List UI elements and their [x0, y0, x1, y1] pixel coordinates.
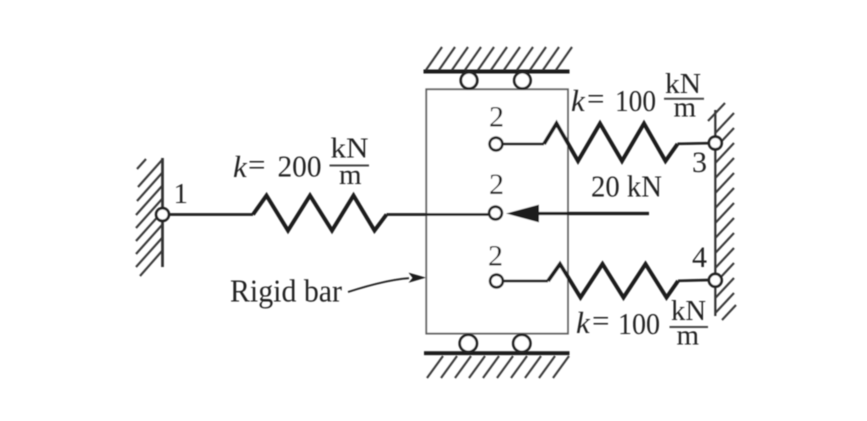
rigid bar (rectangle body)	[426, 89, 568, 333]
left wall	[161, 158, 164, 267]
wire node1 to spring k200	[166, 213, 253, 216]
svg-text:=: =	[587, 81, 604, 116]
node 2 middle pin	[489, 207, 502, 220]
rigid bar pointer arrowhead	[409, 273, 427, 283]
node 3 pin	[709, 137, 722, 150]
svg-text:Rigid bar: Rigid bar	[230, 273, 342, 309]
svg-text:1: 1	[174, 178, 189, 210]
top roller right	[514, 72, 530, 88]
wire spring k200 to bar node 2	[387, 213, 490, 216]
bottom roller right	[513, 335, 530, 352]
left wall hatching	[136, 159, 162, 276]
svg-text:m: m	[674, 92, 697, 124]
svg-text:100: 100	[615, 83, 656, 118]
svg-text:2: 2	[488, 240, 503, 273]
svg-text:20 kN: 20 kN	[591, 169, 662, 204]
wire node2 bottom to spring	[504, 280, 549, 283]
svg-text:k: k	[576, 305, 591, 340]
force arrow 20 kN	[536, 212, 649, 215]
svg-text:4: 4	[692, 241, 707, 274]
floor hatching	[427, 356, 569, 378]
svg-text:2: 2	[489, 168, 504, 201]
node 2 top pin	[490, 138, 503, 151]
spring k100 bottom	[548, 264, 678, 298]
svg-text:m: m	[677, 320, 700, 352]
svg-text:=: =	[248, 147, 265, 182]
node 1 pin	[156, 208, 169, 221]
floor support surface	[424, 351, 570, 355]
rigid bar pointer line	[348, 278, 409, 292]
right wall hatching	[708, 103, 736, 320]
svg-text:m: m	[339, 159, 362, 191]
svg-text:=: =	[592, 303, 609, 338]
ceiling hatching	[426, 47, 572, 70]
wire spring bottom to node 4	[678, 279, 709, 282]
spring k200	[253, 196, 387, 231]
svg-text:2: 2	[489, 101, 504, 134]
svg-text:k: k	[571, 83, 586, 118]
svg-text:100: 100	[618, 306, 660, 341]
svg-text:3: 3	[692, 146, 707, 179]
svg-text:k: k	[233, 149, 248, 184]
wire node2 top to spring	[503, 143, 544, 146]
right wall	[714, 110, 716, 316]
bottom roller left	[460, 335, 477, 352]
wire spring top to node 3	[678, 142, 710, 145]
spring k100 top	[544, 124, 678, 162]
node 2 bottom pin	[490, 275, 503, 288]
top roller left	[461, 72, 477, 88]
svg-text:200: 200	[278, 149, 322, 184]
node 4 pin	[709, 274, 722, 287]
ceiling support surface	[424, 70, 570, 74]
